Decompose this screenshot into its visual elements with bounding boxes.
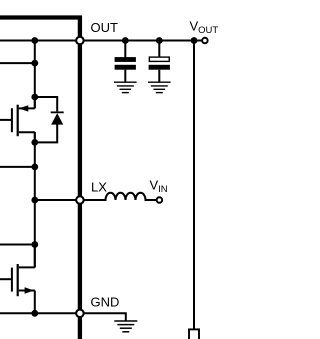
wire: internal GND to GND pin <box>0 312 80 314</box>
capacitor C1 (ceramic output cap) <box>115 41 136 82</box>
wire: rail to LX pin <box>35 199 80 201</box>
internal rail (upper segment) <box>34 41 36 109</box>
resistor R1 (feedback divider, cropped at image edge) <box>189 329 199 339</box>
junction dot (LX wire / rail) <box>31 197 38 204</box>
svg-text:OUT: OUT <box>91 20 119 35</box>
pin LX (open circle on IC edge) <box>76 196 84 204</box>
junction dot (y=167 stub / rail) <box>31 164 38 171</box>
svg-text:LX: LX <box>91 180 107 195</box>
wire: PMOS gate drive <box>0 119 12 121</box>
wire: OUT pin to VOUT terminal <box>80 40 206 42</box>
inductor L1 <box>85 193 158 200</box>
junction dot (C2 tap) <box>156 37 163 44</box>
junction dot (PMOS source node) <box>31 139 38 146</box>
wire: NMOS gate drive <box>0 278 12 280</box>
junction dot (OUT wire / rail) <box>31 37 38 44</box>
junction dot (VOUT node) <box>191 37 198 44</box>
IC boundary (top and right edges of chip) <box>0 18 80 339</box>
ground (earth symbol under C2) <box>148 82 171 92</box>
junction dot (GND wire / rail) <box>31 310 38 317</box>
terminal VOUT (small open circle) <box>202 38 208 44</box>
junction dot (C1 tap) <box>122 37 129 44</box>
transistor Q2 (N-channel main switch) <box>12 245 35 314</box>
junction dot (PMOS drain node) <box>31 94 38 101</box>
junction dot (NMOS drain node) <box>31 241 38 248</box>
pin OUT (open circle on IC edge) <box>76 37 84 45</box>
wire: VOUT feedback branch <box>193 41 195 330</box>
wire: internal stub (y=244.5, NMOS drain) <box>0 244 35 246</box>
capacitor C2 (polarized output cap, hollow top plate) <box>149 41 170 82</box>
svg-text:GND: GND <box>91 295 120 310</box>
junction dot (y=63 stub / rail) <box>31 60 38 67</box>
internal rail (middle segment, LX node) <box>34 132 36 267</box>
wire: internal stub (y=167) <box>0 166 35 168</box>
transistor Q1 (P-channel synchronous rectifier) <box>12 97 35 142</box>
terminal VIN (small open circle) <box>157 197 163 203</box>
pin GND (open circle on IC edge) <box>76 310 84 318</box>
ground (earth symbol at GND pin) <box>114 321 137 332</box>
wire: GND pin to earth ground <box>85 313 126 320</box>
wire: internal stub (y=63) <box>0 62 35 64</box>
diode D1 (Q1 body diode, cathode up) <box>35 97 64 142</box>
ground (earth symbol under C1) <box>114 82 137 92</box>
wire: internal node to OUT pin (left segment) <box>0 40 80 42</box>
